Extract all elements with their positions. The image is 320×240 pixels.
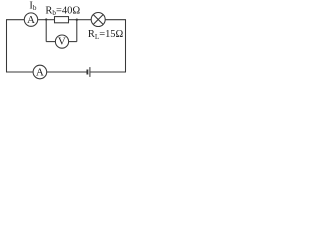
battery [87,67,90,77]
wire voltmeter branch right stub [69,41,77,43]
resistor Rb [55,17,69,23]
wire bottom left segment [6,71,33,73]
svg-text:Ib: Ib [29,1,36,13]
wire left border [6,20,8,73]
wire voltmeter branch left stub [46,41,55,43]
ammeter A top [24,13,37,26]
wire voltmeter branch right vertical [76,20,78,42]
voltmeter V [55,35,68,48]
node B junction dot [76,19,78,21]
wire bottom middle segment [47,71,87,73]
wire node B to lamp [77,19,92,21]
lamp RL [91,13,105,27]
svg-text:A: A [36,67,44,79]
svg-text:RL=15Ω: RL=15Ω [88,29,124,41]
wire node A to resistor [46,19,54,21]
ammeter A bottom [33,65,47,79]
node A junction dot [45,18,47,20]
wire bottom right segment [90,71,126,73]
wire voltmeter branch left vertical [45,20,47,42]
wire lamp to right border [105,19,125,21]
wire ammeter to node A [38,19,47,21]
wire resistor to node B [69,19,77,21]
wire top left segment [6,19,24,21]
wire right border [125,19,127,72]
svg-text:Rb=40Ω: Rb=40Ω [45,6,80,18]
svg-text:A: A [27,14,35,26]
svg-text:V: V [58,36,66,48]
